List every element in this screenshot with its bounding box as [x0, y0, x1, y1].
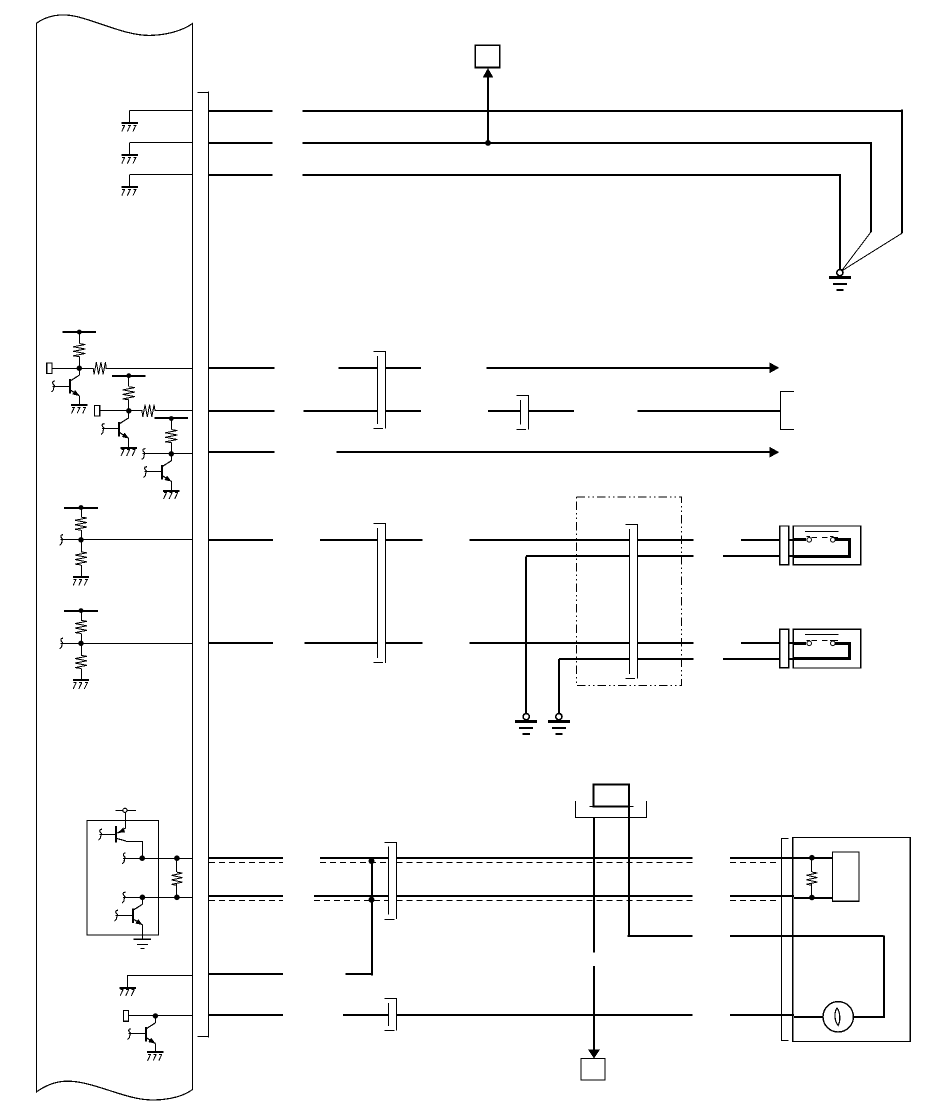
- resistor R10 (bridge): [176, 858, 178, 872]
- ground (chassis) GND3: [121, 186, 137, 188]
- wire W5 seg c: [385, 410, 421, 412]
- wire SIG+ seg b: [397, 857, 693, 859]
- wire W4 seg b: [338, 367, 377, 369]
- ground Q6: [147, 1051, 163, 1053]
- wire Q4 collector: [117, 838, 127, 841]
- wire SIG+ seg a2: [320, 857, 389, 859]
- switch SW2 feed: [793, 642, 806, 645]
- wire W5 seg b: [303, 410, 377, 412]
- driver sub-circuit box: [87, 820, 158, 934]
- squiggle Q1 base: [51, 381, 55, 392]
- connector C6: [385, 998, 398, 1000]
- arrowhead W6: [770, 447, 780, 458]
- switch SW1 case: [793, 526, 860, 565]
- squiggle Q6 base: [128, 1029, 132, 1040]
- sensor box: [581, 1058, 605, 1080]
- transistor Q4 base bar: [115, 826, 117, 842]
- wire W10 seg c: [723, 658, 793, 660]
- wire VD1 row (inside ECU): [61, 539, 193, 541]
- ground wire GND2 inside ECU: [130, 142, 193, 144]
- wire SIG- seg a1: [209, 895, 283, 897]
- node T2 collector: [126, 408, 131, 413]
- squiggle Q2 base: [101, 424, 104, 435]
- switch SW2 actuation dashes: [812, 640, 843, 642]
- lamp filament: [835, 1008, 840, 1025]
- wire lamp feed seg c: [730, 1014, 794, 1016]
- wire SIG+ seg a1: [209, 857, 283, 859]
- terminal circle (test point): [115, 810, 123, 812]
- wire row SIG+ (inside ECU): [123, 858, 192, 860]
- intermediate connector housing (dash-dot box): [576, 497, 681, 686]
- shield dash SIG- c: [730, 900, 779, 902]
- port box P3: [123, 1011, 128, 1022]
- power rail bar T3: [155, 417, 189, 419]
- resistor R1 (collector pull-up): [79, 332, 81, 344]
- resistor R5 (collector pull-up): [171, 419, 173, 430]
- ground wire GND3 inside ECU: [130, 174, 193, 176]
- wire SIG+ seg c: [730, 857, 794, 859]
- wire W3 vertical: [839, 174, 841, 269]
- wire SIG- seg b: [397, 895, 693, 897]
- ground row stem: [127, 975, 129, 987]
- node Q5 collector: [140, 895, 146, 901]
- wire W9 ground stem: [525, 556, 527, 713]
- wire lamp feed seg a1: [209, 1014, 283, 1016]
- ECU control-unit box outline (torn edges): [37, 15, 193, 1100]
- capacitor bracket: [575, 801, 577, 818]
- shield dash SIG+ a2: [320, 862, 389, 864]
- wire W3 seg b: [302, 174, 839, 176]
- wire cap lead left upper: [593, 818, 595, 952]
- ground VD1: [73, 576, 89, 578]
- arrowhead W4: [770, 363, 780, 374]
- squiggle Q3 base: [143, 467, 147, 478]
- wire cap lead left lower: [593, 966, 595, 1051]
- continuation bracket W5: [780, 391, 794, 393]
- switch SW1 actuation dashes: [812, 537, 843, 539]
- shield dash SIG- b: [397, 900, 693, 902]
- wire W9 seg a: [526, 555, 630, 557]
- wire W7 seg e: [637, 539, 693, 541]
- wire W10 seg b: [637, 658, 693, 660]
- squiggle VD2 row end: [60, 638, 64, 649]
- resistor R2 (series output): [93, 362, 106, 374]
- ground VD2: [73, 679, 89, 681]
- body ground G2: [523, 714, 529, 720]
- wire unit SIG+ inside: [794, 857, 833, 859]
- wire unit power inside: [794, 935, 884, 937]
- power rail bar VD2: [64, 610, 98, 612]
- noise capacitor base line: [589, 806, 633, 808]
- wire W8 seg b: [305, 642, 378, 644]
- ground Q2: [121, 447, 137, 449]
- resistor R11 (unit): [811, 858, 813, 872]
- squiggle Q5 base: [115, 910, 118, 921]
- shield dash SIG+ a1: [209, 862, 283, 864]
- wire W9 seg b: [637, 555, 693, 557]
- wire T1 output row (inside ECU): [52, 368, 94, 370]
- wire W2 drain diagonal: [841, 232, 871, 271]
- node T1 collector: [77, 366, 82, 371]
- wire W5 seg d: [488, 410, 521, 412]
- wire T2 output row (inside ECU): [100, 410, 143, 412]
- wire Q4 base lead: [99, 834, 116, 836]
- resistor R7 (lower): [81, 540, 83, 552]
- ground stem GND1: [129, 111, 131, 123]
- node T3 collector: [169, 451, 174, 456]
- wire W4 seg c: [385, 367, 421, 369]
- port box P1: [47, 363, 52, 374]
- wire lamp inside: [794, 1016, 823, 1018]
- wire W2 vertical: [870, 142, 872, 232]
- resistor R4 (series output): [142, 405, 155, 417]
- shield dash SIG+ b: [397, 862, 693, 864]
- wire W8 seg a: [209, 642, 273, 644]
- wire power row seg b: [730, 935, 794, 937]
- wire shield drain seg b: [345, 973, 372, 975]
- noise capacitor box: [594, 784, 629, 806]
- switch SW2 return loop: [835, 642, 851, 645]
- wire lamp feed seg b: [397, 1014, 693, 1016]
- wire Q6 output row (inside ECU): [129, 1015, 193, 1017]
- wire ground row (inside ECU): [128, 975, 192, 977]
- ground Q1: [71, 404, 87, 406]
- wire shield drain seg a: [209, 973, 283, 975]
- lamp bulb: [823, 1002, 853, 1032]
- ground wire GND1 inside ECU: [130, 110, 193, 112]
- node Q6 collector: [153, 1013, 158, 1018]
- branch wire to diagnostic connector: [487, 77, 489, 143]
- squiggle VD1 row end: [60, 535, 64, 546]
- wire W5 seg a: [209, 410, 275, 412]
- node VD1: [78, 537, 83, 542]
- wire W1 seg a: [209, 110, 273, 112]
- wire W10 seg a: [559, 658, 630, 660]
- transistor Q5: [142, 897, 144, 904]
- wire W1 seg b: [302, 110, 902, 112]
- connector bar SW1: [780, 526, 789, 565]
- wire W6 seg a: [209, 451, 275, 453]
- ground Q5 (earth): [134, 938, 152, 940]
- wire W8 seg f: [741, 642, 793, 644]
- node VD2: [78, 641, 83, 646]
- resistor R6 (upper): [81, 508, 83, 518]
- switch SW1 contact b: [831, 538, 836, 543]
- wire W2 seg a: [209, 142, 273, 144]
- resistor R3 (collector pull-up): [128, 376, 130, 387]
- transistor Q2: [128, 411, 130, 418]
- power rail bar VD1: [64, 507, 98, 509]
- connector C5: [385, 842, 398, 844]
- arrow to diagnostic connector: [483, 68, 494, 78]
- wire terminal to Q4 emitter: [125, 812, 127, 828]
- ground stem GND2: [129, 143, 131, 155]
- junction node on W2: [485, 140, 491, 146]
- ground stem GND3: [129, 175, 131, 187]
- wire unit SIG- inside: [794, 897, 833, 899]
- port box P2: [95, 406, 100, 417]
- wire W8 seg e: [637, 642, 693, 644]
- squiggle T3 row end: [142, 449, 146, 460]
- wire W5 seg e: [528, 410, 574, 412]
- sensor element box: [833, 852, 860, 901]
- wire W5 seg f: [638, 410, 780, 412]
- transistor Q6: [155, 1016, 157, 1023]
- connector C3: [374, 523, 387, 525]
- ground (chassis) row: [120, 987, 136, 989]
- wire lamp to power: [853, 1016, 884, 1018]
- transistor Q1: [79, 368, 81, 375]
- wire SIG- seg a2: [314, 895, 389, 897]
- wire W8 seg c: [385, 642, 422, 644]
- resistor R8 (upper): [81, 611, 83, 621]
- wire SIG- seg c: [730, 895, 794, 897]
- power rail bar T1: [63, 331, 97, 333]
- wire W9 seg c: [723, 555, 793, 557]
- wire W7 seg a: [209, 539, 273, 541]
- ECU harness connector bar: [197, 92, 209, 94]
- switch SW1 blade: [805, 531, 839, 533]
- switch SW1 return loop: [835, 538, 851, 541]
- resistor R9 (lower): [81, 643, 83, 655]
- wire W10 ground stem: [558, 659, 560, 714]
- node Q4 collector: [139, 855, 145, 861]
- shield dash SIG- a2: [314, 900, 389, 902]
- wire W8 seg d: [470, 642, 630, 644]
- node unit SIG+: [809, 855, 815, 861]
- transistor Q3: [171, 454, 173, 461]
- transistor Q4 (PNP) emitter diag: [117, 828, 125, 833]
- body ground G1: [837, 270, 843, 276]
- wire W1 vertical: [901, 110, 903, 233]
- transistor Q4 emitter arrow: [117, 828, 125, 833]
- wire row SIG- (inside ECU): [123, 897, 193, 899]
- connector C1: [374, 351, 387, 353]
- connector C2: [517, 395, 530, 397]
- switch SW2 contact b: [831, 641, 836, 646]
- wire W7 seg c: [385, 539, 422, 541]
- squiggle row SIG- end: [122, 892, 125, 903]
- wire W2 seg b: [302, 142, 871, 144]
- ground Q3: [163, 490, 179, 492]
- unit box: [793, 838, 911, 1042]
- connector C7 (unit): [781, 838, 789, 840]
- connector bar SW2: [780, 629, 789, 668]
- node SIG- at resistor: [174, 895, 180, 901]
- switch SW2 case: [793, 629, 860, 668]
- switch SW1 contact a: [807, 538, 812, 543]
- wire VD2 row (inside ECU): [61, 643, 193, 645]
- switch SW2 blade: [805, 634, 839, 636]
- node SIG+ at resistor: [174, 855, 180, 861]
- ground (chassis) GND2: [121, 154, 137, 156]
- connector C4 (in housing): [626, 524, 639, 526]
- squiggle Q4 base: [99, 829, 102, 840]
- wire W4 seg a: [209, 367, 275, 369]
- switch SW1 feed: [793, 538, 806, 541]
- wire T3 output row (inside ECU): [143, 453, 193, 455]
- wire W6 arrow segment: [336, 451, 770, 453]
- wire W7 seg b: [320, 539, 377, 541]
- shield dash SIG- a1: [209, 900, 283, 902]
- node unit SIG-: [809, 895, 815, 901]
- switch SW2 contact a: [807, 641, 812, 646]
- node shield drain SIG+: [369, 858, 375, 864]
- wire cap lead right: [628, 807, 630, 936]
- shield dash SIG+ c: [730, 862, 779, 864]
- wire lamp feed seg a2: [343, 1014, 389, 1016]
- arrow to sensor: [588, 1049, 600, 1058]
- wire W1 drain diagonal: [841, 233, 902, 271]
- ground (chassis) GND1: [121, 122, 137, 124]
- diagnostic connector box: [475, 45, 499, 67]
- body ground G3: [556, 714, 562, 720]
- wire W7 seg f: [741, 539, 793, 541]
- node shield drain SIG-: [369, 897, 375, 903]
- wire W4 arrow segment: [487, 367, 770, 369]
- wire W7 seg d: [470, 539, 630, 541]
- squiggle row SIG+ end: [122, 853, 125, 864]
- power rail bar T2: [112, 375, 146, 377]
- wire W3 seg a: [209, 174, 273, 176]
